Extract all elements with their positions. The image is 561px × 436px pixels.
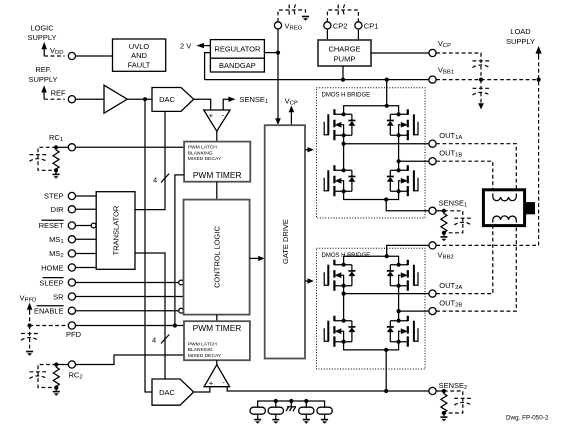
bus slash 4 (top) xyxy=(161,174,169,183)
pin PFD xyxy=(68,322,75,329)
capacitor C-PFD xyxy=(21,333,38,335)
pad GND2 xyxy=(268,407,283,414)
wire bridge1 feed xyxy=(386,80,388,106)
pin OUT1A xyxy=(429,140,436,147)
svg-text:SUPPLY: SUPPLY xyxy=(28,75,57,84)
buffer amp A1 xyxy=(104,85,127,113)
control logic U8 xyxy=(184,200,250,315)
node OUT2A tap xyxy=(342,292,346,296)
wire DAC2 to comparator2 + xyxy=(194,387,210,392)
wire translator to DAC1 bus xyxy=(135,111,165,209)
pin VDD xyxy=(68,52,75,59)
pin CP2 xyxy=(324,22,331,29)
ref supply arrow xyxy=(41,85,47,92)
node regulator-VREG xyxy=(276,51,280,55)
pwm timer U6 xyxy=(184,142,250,182)
node gnd bus 1 xyxy=(274,399,278,403)
wire bridge2 bottom rail xyxy=(344,342,399,350)
transistor Q7 xyxy=(324,316,355,347)
svg-text:TRANSLATOR: TRANSLATOR xyxy=(111,205,120,255)
svg-text:HOME: HOME xyxy=(41,263,64,272)
svg-text:AND: AND xyxy=(131,51,147,60)
wire control logic to PWM timer 2 xyxy=(216,315,218,322)
svg-text:GATE DRIVE: GATE DRIVE xyxy=(281,219,290,264)
node bridge1 sense xyxy=(384,197,388,201)
DMOS H bridge 1 box xyxy=(317,88,426,218)
resistor R-SENSE1 xyxy=(441,211,447,233)
wire comparator1 out to PWM timer 1 xyxy=(216,131,218,141)
motor body xyxy=(483,190,524,226)
svg-text:PWM LATCH: PWM LATCH xyxy=(188,342,217,348)
SENSE1 arrow xyxy=(228,97,235,102)
node bridge2 sense xyxy=(384,348,388,352)
node gnd bus 2 xyxy=(289,399,293,403)
svg-text:4: 4 xyxy=(152,336,156,345)
capacitor C-VREG xyxy=(288,5,290,16)
wire charge pump to VBB1 line xyxy=(342,66,344,80)
capacitor C-VBB1 xyxy=(473,87,490,89)
svg-text:PWM LATCH: PWM LATCH xyxy=(188,145,217,151)
wire SLEEP to control logic xyxy=(76,282,179,284)
wire OUT1A xyxy=(344,143,429,145)
wire OUT1B xyxy=(399,160,429,162)
wire PWM timer 2 to comparator2 xyxy=(216,360,218,365)
wire PFD to PWM timer 2 xyxy=(76,325,185,327)
pin SENSE2 xyxy=(429,387,436,394)
capacitor C-RC1 xyxy=(30,154,47,156)
wire SENSE1 to sense resistor xyxy=(436,210,444,212)
wire gate drive to bridge 2 xyxy=(305,280,309,282)
svg-text:SUPPLY: SUPPLY xyxy=(506,37,535,46)
node RC2 bottom xyxy=(54,386,58,390)
capacitor C-SENSE1 dashed leads xyxy=(444,211,463,233)
wire comparator1 minus to SENSE1 xyxy=(223,99,229,110)
ground PFD xyxy=(26,351,33,353)
pwm timer U9 xyxy=(184,321,250,360)
2V output arrow xyxy=(196,43,204,48)
svg-text:REF: REF xyxy=(51,89,66,98)
wire PWM timer 1 to PFD net xyxy=(175,175,184,326)
wire RC1 to R xyxy=(56,146,68,148)
pin VCP xyxy=(429,49,436,56)
ground VREG cap xyxy=(302,16,309,18)
wire gate drive to bridge 1 xyxy=(305,149,309,151)
motor winding 1 xyxy=(493,194,517,197)
svg-text:ENABLE: ENABLE xyxy=(34,307,64,316)
bandgap U3 xyxy=(210,58,264,72)
wire charge pump to VCP pin xyxy=(371,52,429,54)
DAC U10 xyxy=(152,379,194,405)
pin OUT1B xyxy=(429,158,436,165)
node bridge2 top rail xyxy=(385,254,389,258)
capacitor C-SENSE1 xyxy=(454,217,471,219)
wire load supply vertical dashed xyxy=(436,56,538,245)
pin SENSE1 xyxy=(429,207,436,214)
wire bridge2 top rail xyxy=(344,256,399,265)
resistor R-RC1 xyxy=(53,147,59,170)
wire RC1 to PWM timer 1 xyxy=(76,146,185,148)
wire bridge1 right leg xyxy=(398,135,400,170)
svg-text:CP2: CP2 xyxy=(333,21,348,30)
DAC U5 xyxy=(152,88,194,112)
wire ENABLE to control logic xyxy=(76,310,179,312)
DMOS H bridge 2 box xyxy=(317,248,426,369)
svg-text:DIR: DIR xyxy=(51,205,65,214)
supply return arrow xyxy=(478,103,484,109)
resistor R-SENSE2 xyxy=(441,391,447,413)
wire bridge2 right leg xyxy=(398,286,400,321)
VCP arrow xyxy=(289,106,295,113)
node sense2 top xyxy=(442,389,446,393)
wire bridge2 to sense2 line xyxy=(385,350,387,391)
wire OUT1B dashed to motor xyxy=(436,161,493,193)
svg-text:RESET: RESET xyxy=(39,221,64,230)
wire RC2 to R xyxy=(56,364,68,366)
transistor Q3 xyxy=(324,165,355,196)
svg-text:UVLO: UVLO xyxy=(129,42,150,51)
node OUT2B tap xyxy=(397,309,401,313)
wire RC2 to PWM timer 2 xyxy=(76,355,185,365)
node VCP cap / VBB1 xyxy=(479,78,483,82)
capacitor C-SENSE2 dashed leads xyxy=(444,391,463,413)
op-amp U1 UVLO AND FAULT xyxy=(113,39,166,71)
svg-text:STEP: STEP xyxy=(44,192,64,201)
pad GND1 xyxy=(250,407,265,414)
svg-text:CP1: CP1 xyxy=(364,21,379,30)
svg-text:+: + xyxy=(209,378,213,387)
svg-text:CHARGE: CHARGE xyxy=(328,44,360,53)
inverter bubble SLEEP xyxy=(179,280,184,285)
svg-text:SENSE1: SENSE1 xyxy=(439,198,468,208)
node sense1 top xyxy=(442,209,446,213)
svg-text:REGULATOR: REGULATOR xyxy=(214,45,261,54)
svg-text:4: 4 xyxy=(153,176,157,185)
wire OUT1A dashed to motor xyxy=(436,144,516,194)
wire OUT2A dashed to motor xyxy=(436,223,493,294)
wire OUT2B xyxy=(399,310,429,312)
ground bus xyxy=(258,401,325,407)
ground RC2 xyxy=(55,388,57,391)
svg-text:PWM TIMER: PWM TIMER xyxy=(193,323,242,333)
VPFD arrow xyxy=(27,303,33,310)
node charge pump / VBB1 xyxy=(341,78,345,82)
pin OUT2A xyxy=(429,290,436,297)
wire VBB2 feed xyxy=(387,245,429,256)
wire VREG vertical to gate drive xyxy=(277,29,279,121)
wire VBB to regulator input xyxy=(205,53,211,80)
pin CP1 xyxy=(355,22,362,29)
motor winding 2 xyxy=(493,220,517,223)
wire DAC1 to comparator1 + xyxy=(194,99,211,110)
inverter bubble RESET xyxy=(91,223,96,228)
transistor Q6 xyxy=(387,260,418,291)
node gnd bus 3 xyxy=(304,399,308,403)
transistor Q4 xyxy=(387,165,418,196)
transistor Q1 xyxy=(324,109,355,140)
wire CP2 to charge pump xyxy=(326,29,328,40)
pin VBB2 xyxy=(429,242,436,249)
svg-text:LOGIC: LOGIC xyxy=(30,24,54,33)
wire control logic to gate drive xyxy=(250,257,260,259)
wire SR to control logic xyxy=(76,296,184,298)
node sense1 bottom xyxy=(442,231,446,235)
wire translator to DAC2 bus xyxy=(135,253,165,379)
svg-text:PWM TIMER: PWM TIMER xyxy=(193,170,242,180)
svg-text:DAC: DAC xyxy=(159,388,175,397)
svg-text:SLEEP: SLEEP xyxy=(39,278,63,287)
svg-text:BLANKING: BLANKING xyxy=(188,150,213,156)
node OUT1A tap xyxy=(342,142,346,146)
ground RC1 xyxy=(53,173,60,175)
svg-text:FAULT: FAULT xyxy=(128,60,151,69)
capacitor C-VCP xyxy=(473,60,490,62)
pad GND3 xyxy=(299,407,314,414)
svg-text:LOAD: LOAD xyxy=(510,27,531,36)
svg-text:SR: SR xyxy=(53,292,64,301)
svg-text:DAC: DAC xyxy=(159,95,175,104)
node VBB1 bridge feed xyxy=(385,78,389,82)
node load supply / VBB1 xyxy=(537,78,541,82)
pin RC2 xyxy=(68,361,75,368)
node bridge1 top rail xyxy=(385,104,389,108)
capacitor C-RC2 dashed leads xyxy=(38,365,56,388)
wire VPFD dashed xyxy=(29,311,31,326)
regulator U2 xyxy=(210,40,264,59)
translator U7 xyxy=(96,192,135,270)
comparator A3 xyxy=(204,365,230,387)
wire CP1 to charge pump xyxy=(357,29,359,40)
pin VBB1 xyxy=(429,76,436,83)
transistor Q2 xyxy=(387,109,418,140)
wire VDD dashed xyxy=(44,55,64,57)
arrow control to gate drive xyxy=(258,256,264,261)
wire OUT2A xyxy=(344,293,429,295)
wire PWM timer 1 to control logic xyxy=(216,182,218,200)
pin RC1 xyxy=(68,144,75,151)
load supply arrow xyxy=(536,46,542,54)
wire bridge1 to SENSE1 xyxy=(386,200,429,211)
transistor Q5 xyxy=(324,260,355,291)
motor shaft tab xyxy=(526,202,535,214)
wire buffer out to DAC1 xyxy=(127,98,152,100)
capacitor C-VBB1 dashed lead xyxy=(480,80,482,104)
comparator A2 xyxy=(204,110,230,131)
node PFD tee xyxy=(173,323,177,327)
logic supply arrow xyxy=(41,42,47,49)
pin OUT2B xyxy=(429,308,436,315)
resistor R-RC2 xyxy=(53,365,59,388)
pin REF xyxy=(68,96,75,103)
wire VDD to UVLO xyxy=(76,55,113,57)
svg-text:PFD: PFD xyxy=(66,330,82,339)
pin VREG xyxy=(274,22,281,29)
wire bridge1 left leg xyxy=(343,135,345,170)
svg-text:+: + xyxy=(209,111,213,120)
ground SENSE1 xyxy=(443,233,445,236)
node RC1 top xyxy=(54,145,58,149)
node VPFD xyxy=(28,323,32,327)
wire CP2 cap dashed xyxy=(327,10,358,22)
wire VBB1 line xyxy=(205,79,429,81)
wire VREG cap dashed xyxy=(278,10,306,22)
wire bridge2 left leg xyxy=(343,286,345,321)
wire bridge1 bottom rail xyxy=(344,191,399,199)
svg-text:Dwg. FP-050-2: Dwg. FP-050-2 xyxy=(506,415,549,422)
node sense2 line xyxy=(384,389,388,393)
svg-text:2 V: 2 V xyxy=(180,42,191,51)
capacitor C-RC2 xyxy=(30,371,47,373)
wire VBB1 to load supply dashed xyxy=(436,79,538,81)
wire SENSE2 to sense resistor xyxy=(436,390,444,392)
gate drive U11 xyxy=(265,125,305,358)
svg-text:BANDGAP: BANDGAP xyxy=(219,61,256,70)
charge pump U4 xyxy=(318,40,371,66)
chassis ground xyxy=(286,401,296,411)
svg-text:MIXED DECAY: MIXED DECAY xyxy=(188,156,222,162)
wire VCP cap dashed xyxy=(436,53,481,80)
node RC1 bottom xyxy=(54,168,58,172)
transistor Q8 xyxy=(387,316,418,347)
arrow into gate drive xyxy=(275,118,281,125)
inverter bubble ENABLE xyxy=(179,308,184,313)
pad GND4 xyxy=(317,407,332,414)
capacitor C-PFD dashed lead xyxy=(29,326,31,351)
wire comparator2 minus to sense2 line xyxy=(227,387,429,391)
svg-text:CONTROL LOGIC: CONTROL LOGIC xyxy=(212,226,221,288)
svg-text:MIXED DECAY: MIXED DECAY xyxy=(188,353,222,359)
capacitor C-RC1 dashed leads xyxy=(38,147,56,170)
svg-text:SUPPLY: SUPPLY xyxy=(27,33,56,42)
wire REF dashed xyxy=(44,98,65,100)
wire REF to buffer xyxy=(76,98,105,100)
wire OUT2B dashed to motor xyxy=(436,223,516,312)
bus slash 4 (bottom) xyxy=(161,335,169,344)
capacitor C-CP xyxy=(337,5,339,16)
capacitor C-SENSE2 xyxy=(454,397,471,399)
node ref bus xyxy=(143,97,147,101)
wire ref bus down to DAC2 xyxy=(145,99,152,392)
svg-text:SENSE1: SENSE1 xyxy=(240,95,269,105)
svg-text:DMOS H BRIDGE: DMOS H BRIDGE xyxy=(322,93,371,99)
wire bridge1 top rail xyxy=(344,106,399,115)
wire PFD dashed xyxy=(30,325,69,327)
ground SENSE2 xyxy=(443,413,445,416)
node RC2 top xyxy=(54,362,58,366)
node sense2 bottom xyxy=(442,411,446,415)
svg-text:PUMP: PUMP xyxy=(334,54,356,63)
svg-text:BLANKING: BLANKING xyxy=(188,347,213,353)
node OUT1B tap xyxy=(397,159,401,163)
svg-text:REF.: REF. xyxy=(35,65,51,74)
wire regulator out to VREG line xyxy=(264,52,278,54)
